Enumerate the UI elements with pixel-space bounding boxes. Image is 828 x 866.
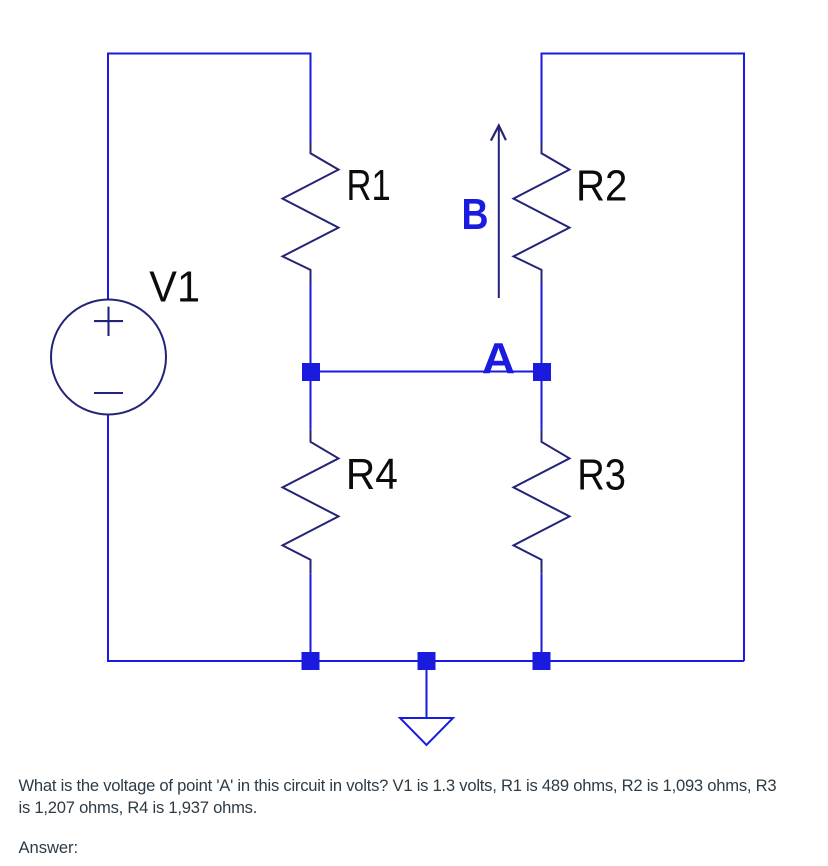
wire: right loop top (R2 top up over to right side down to bottom rail) [542,54,745,662]
wire: R2 bottom to R3 top through node A [541,283,543,429]
node junction bottom ground [418,652,436,670]
resistor R1 zigzag [283,141,339,283]
node junction bottom right (R3) [533,652,551,670]
svg-text:A: A [482,334,516,383]
current arrow B head [491,126,506,141]
svg-text:R2: R2 [576,162,627,211]
svg-text:R3: R3 [577,451,626,500]
answer label [19,837,79,859]
svg-text:R1: R1 [347,161,391,210]
V1 plus sign [94,307,123,336]
wire: R1 bottom to R4 top through node [310,283,312,429]
V1 minus sign [94,392,123,394]
ground triangle [400,718,453,745]
wire: R3 bottom to bottom rail [541,574,543,661]
node junction bottom left (R4) [302,652,320,670]
wire: left loop top (V1 to R1 top) [108,54,311,300]
question text [19,775,777,820]
current arrow B shaft [498,127,500,298]
resistor R2 zigzag [514,141,570,283]
resistor R4 zigzag [283,429,339,573]
ground stem wire [426,670,428,718]
node junction at R1/R4/A [302,363,320,381]
wire: node A row horizontal [311,371,542,373]
resistor R3 zigzag [514,429,570,573]
svg-text:B: B [462,190,489,239]
node A junction at R2/R3 [533,363,551,381]
wire: R4 bottom to bottom rail [310,574,312,661]
wire: V1 bottom to bottom rail [108,415,744,662]
svg-text:R4: R4 [346,450,398,499]
voltage source V1 circle [51,300,166,415]
svg-text:V1: V1 [149,263,200,312]
